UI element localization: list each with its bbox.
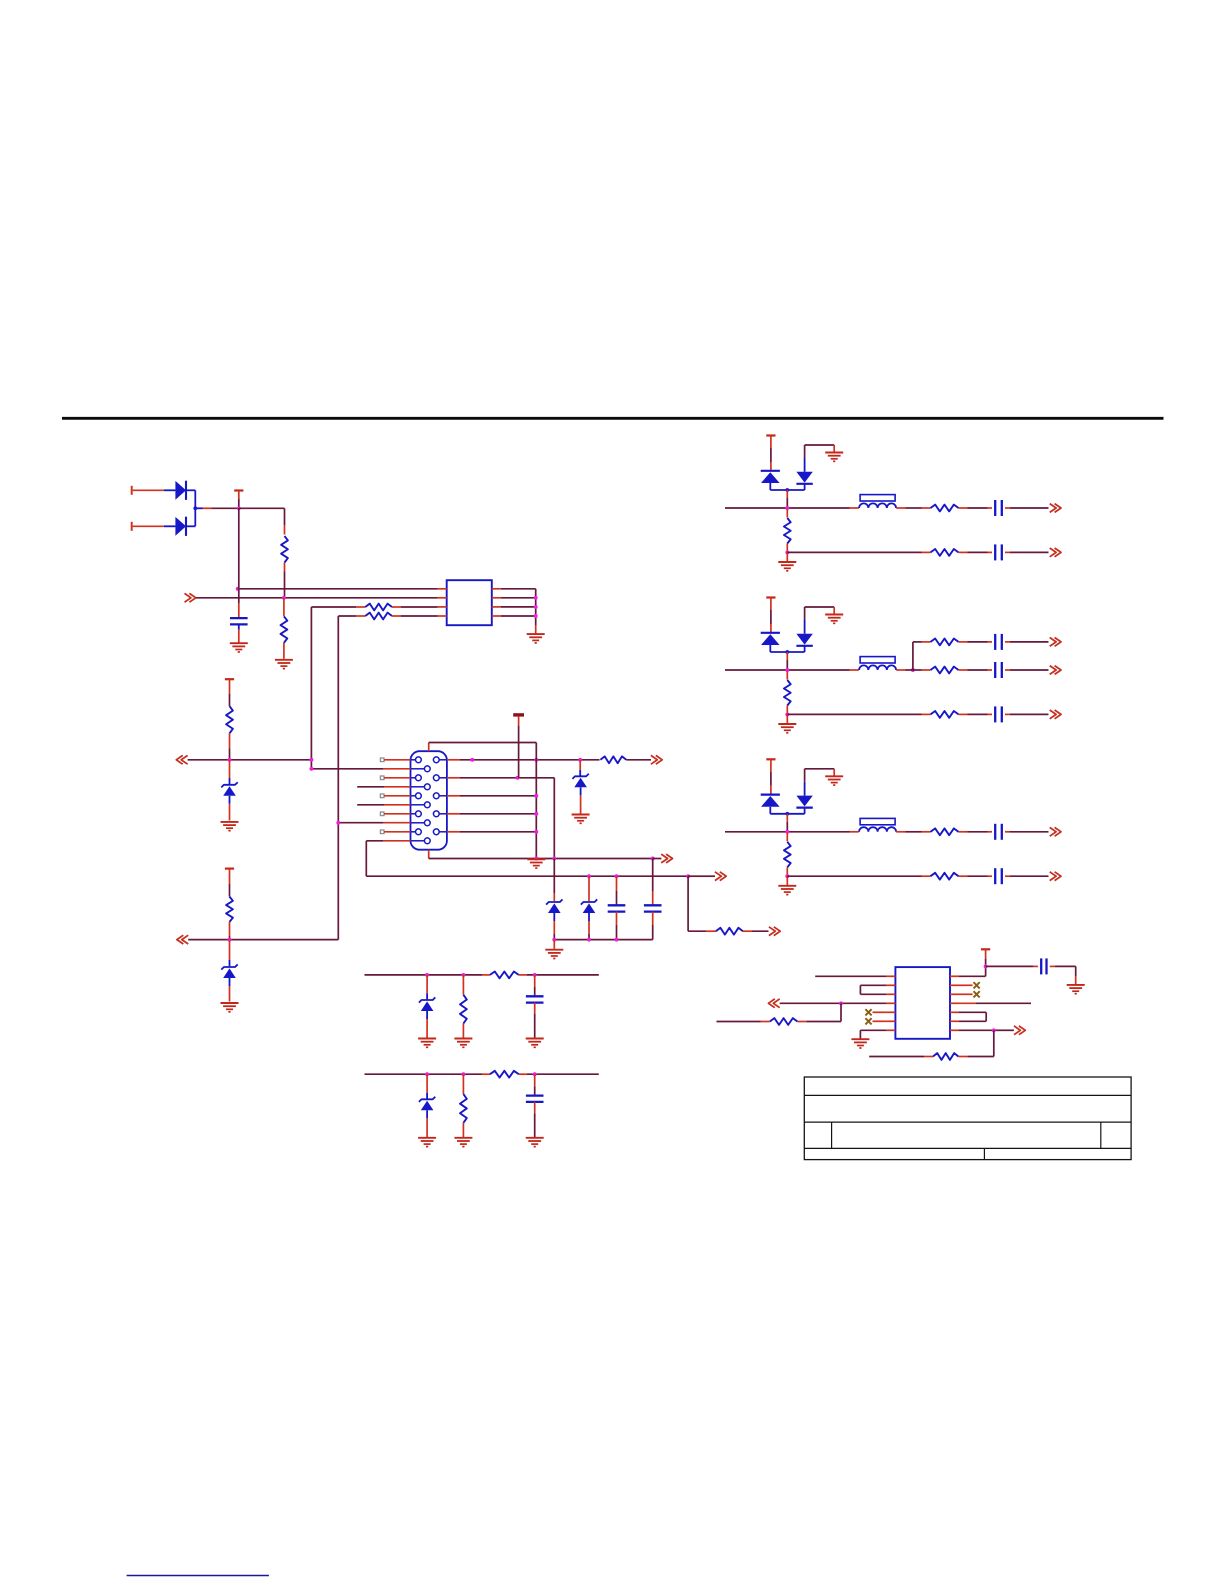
node junction xyxy=(236,587,240,591)
wire to ground jog xyxy=(805,607,835,615)
wire xyxy=(959,641,993,643)
wire xyxy=(906,507,931,509)
wire xyxy=(229,804,231,821)
ground xyxy=(221,822,239,831)
wire xyxy=(534,1074,536,1095)
wire xyxy=(786,552,788,561)
wire xyxy=(426,1074,428,1098)
wire xyxy=(392,615,438,617)
wire xyxy=(229,760,231,784)
wire xyxy=(873,1020,887,1022)
wire xyxy=(959,831,993,833)
pin square J1-9 xyxy=(380,830,384,834)
wire row8 drop to stack2 xyxy=(337,823,339,940)
ground xyxy=(825,776,843,785)
power VCC tap xyxy=(234,491,243,509)
pin square J1-3 xyxy=(380,776,384,780)
power VCC tap xyxy=(981,949,990,966)
off-page connector (input) xyxy=(177,935,188,944)
off-page connector (output) xyxy=(1050,548,1061,557)
resistor R21 xyxy=(460,1094,467,1123)
U2 pin 1 stub xyxy=(886,975,895,977)
footer underline xyxy=(127,1575,269,1577)
off-page connector (output) xyxy=(1050,827,1061,836)
resistor R10 xyxy=(931,505,959,512)
node junction xyxy=(785,712,789,716)
ground xyxy=(221,1003,239,1012)
wire xyxy=(426,1118,428,1137)
node junction xyxy=(785,874,789,878)
wire J1 row4 stub xyxy=(357,786,410,788)
off-page connector (output) xyxy=(661,854,672,863)
wire xyxy=(1005,551,1049,553)
ground xyxy=(851,1039,869,1048)
pin 5 stub xyxy=(492,615,501,617)
ground xyxy=(230,643,248,652)
wire J1 row6 stub xyxy=(357,804,410,806)
wire xyxy=(959,551,993,553)
wire xyxy=(959,993,973,995)
wire U1 outputs to ground rail xyxy=(501,589,536,634)
node junction xyxy=(534,614,538,618)
resistor R2 xyxy=(281,616,288,643)
wire pin stub xyxy=(384,813,411,815)
title block frame xyxy=(804,1077,1131,1160)
wire pin stub xyxy=(384,759,411,761)
U2 pin 5 stub xyxy=(886,1011,895,1013)
node junction xyxy=(534,794,538,798)
node junction xyxy=(309,758,313,762)
node junction xyxy=(587,874,591,878)
wire xyxy=(580,795,582,814)
resistor R17 xyxy=(931,828,959,835)
ground xyxy=(825,453,843,462)
capacitor C8 xyxy=(995,706,1002,722)
diode D12 (to GND) xyxy=(796,607,812,652)
node junction xyxy=(534,812,538,816)
resistor R15 xyxy=(931,711,959,718)
ground xyxy=(526,1138,544,1147)
power VCC tap block y=508.0 xyxy=(766,436,775,471)
ground xyxy=(454,1138,472,1147)
wire diode pair common xyxy=(770,812,804,832)
wire J1 row8 xyxy=(338,822,410,824)
node junction xyxy=(534,758,538,762)
wire vertical xyxy=(238,508,240,589)
wire xyxy=(392,606,438,608)
terminal P1 xyxy=(132,486,164,495)
capacitor C11 xyxy=(526,996,544,1002)
wire xyxy=(896,831,905,833)
power VCC tap xyxy=(225,869,234,897)
node junction xyxy=(785,550,789,554)
U2 pin 12 stub xyxy=(950,993,959,995)
wire xyxy=(1005,831,1049,833)
wire branch up xyxy=(906,642,922,670)
wire xyxy=(873,1011,887,1013)
wire xyxy=(164,525,176,527)
node junction xyxy=(533,973,537,977)
U2 pin 9 stub xyxy=(950,1020,959,1022)
node junction xyxy=(785,506,789,510)
wire Z5 drop xyxy=(588,876,590,901)
wire xyxy=(906,831,931,833)
off-page connector (output) xyxy=(1014,1026,1025,1035)
IC U2 xyxy=(895,967,950,1039)
ground xyxy=(527,859,545,868)
wire xyxy=(553,940,555,949)
node junction xyxy=(552,938,556,942)
wire resistor drop xyxy=(786,833,788,842)
node junction xyxy=(839,1001,843,1005)
wire to ground jog xyxy=(805,445,835,453)
zener diode Z3 xyxy=(572,774,588,796)
wire row3 to U1 xyxy=(311,606,365,608)
wire U2 pin2-pin3 loop xyxy=(860,985,886,994)
diode D14 (to GND) xyxy=(796,769,812,814)
wire main line xyxy=(725,507,859,509)
resistor R5 xyxy=(226,706,233,733)
node junction xyxy=(309,767,313,771)
resistor R17 xyxy=(770,1018,798,1025)
pin 1 stub xyxy=(438,588,447,590)
capacitor C12 xyxy=(526,1096,544,1102)
off-page connector (output) xyxy=(651,755,662,764)
wire xyxy=(787,551,930,553)
wire xyxy=(869,1056,933,1058)
U2 pin 13 stub xyxy=(950,984,959,986)
wire J1 row5 net xyxy=(447,795,536,797)
resistor R20 xyxy=(490,972,519,979)
U2 pin 3 stub xyxy=(886,993,895,995)
wire xyxy=(786,867,788,876)
diode D1 xyxy=(175,481,186,500)
wire xyxy=(652,912,654,940)
wire xyxy=(229,733,231,760)
capacitor C10 (decoupling) xyxy=(1041,958,1046,974)
wire ground bus xyxy=(366,875,688,877)
no-connect U2 pin13 xyxy=(974,982,980,988)
ground xyxy=(454,1039,472,1048)
wire xyxy=(238,589,240,617)
node junction xyxy=(615,874,619,878)
wire bus to U1 pin1 xyxy=(238,588,438,590)
wire J1 pin1 net xyxy=(447,759,600,761)
wire decoupling xyxy=(986,965,1038,967)
ground xyxy=(275,660,293,669)
wire to ground jog xyxy=(805,769,835,777)
node junction xyxy=(461,973,465,977)
wire xyxy=(959,875,993,877)
wire xyxy=(186,525,195,527)
node junction xyxy=(552,857,556,861)
diode D13 (to VCC) xyxy=(761,795,780,814)
wire pin stub xyxy=(384,831,411,833)
node junction xyxy=(534,605,538,609)
wire xyxy=(188,759,312,761)
wire xyxy=(284,508,286,534)
wire feedback resistor line xyxy=(797,1003,841,1021)
capacitor C9 xyxy=(995,824,1002,840)
capacitor C5 xyxy=(995,544,1002,560)
resistor R19 xyxy=(460,995,467,1024)
wire xyxy=(164,489,176,491)
node junction xyxy=(461,1072,465,1076)
wire xyxy=(896,669,905,671)
pin 6 stub xyxy=(492,606,501,608)
ground xyxy=(778,724,796,733)
wire J1 row7 net xyxy=(447,813,536,815)
no-connect U2 pin5 xyxy=(865,1009,871,1015)
wire resistor drop xyxy=(786,671,788,680)
node junction xyxy=(615,938,619,942)
node junction xyxy=(785,830,789,834)
diode D2 xyxy=(175,517,186,536)
U2 pin 14 stub xyxy=(950,975,959,977)
off-page connector (input) xyxy=(768,999,779,1008)
wire filter bus xyxy=(365,974,599,976)
node junction xyxy=(686,874,690,878)
wire xyxy=(703,875,715,877)
wire xyxy=(283,643,285,659)
node junction xyxy=(533,1072,537,1076)
wire xyxy=(688,876,716,931)
wire U1 row3 drop xyxy=(310,607,312,760)
wire xyxy=(462,1024,464,1038)
off-page connector (input) xyxy=(185,593,196,602)
capacitor C6 xyxy=(995,634,1002,650)
node junction xyxy=(516,776,520,780)
wire diode common xyxy=(193,490,238,526)
wire xyxy=(913,669,931,671)
capacitor C1 xyxy=(230,618,248,624)
wire C3 drop xyxy=(652,859,654,905)
node junction xyxy=(282,596,286,600)
wire xyxy=(896,507,905,509)
wire xyxy=(786,706,788,715)
ground xyxy=(526,1039,544,1048)
connector J1 (VGA DB15) xyxy=(411,751,447,850)
wire xyxy=(1005,641,1049,643)
wire xyxy=(229,940,231,967)
U2 pin 6 stub xyxy=(886,1020,895,1022)
wire xyxy=(426,1019,428,1038)
zener diode Z6 xyxy=(419,997,435,1019)
node junction xyxy=(425,973,429,977)
wire resistor drop xyxy=(786,509,788,518)
ground xyxy=(778,562,796,571)
ground xyxy=(572,815,590,824)
node junction xyxy=(228,758,232,762)
ground xyxy=(545,950,563,959)
pin 7 stub xyxy=(492,597,501,599)
off-page connector (output) xyxy=(1050,638,1061,647)
U2 pin 8 stub xyxy=(950,1029,959,1031)
wire xyxy=(426,975,428,999)
node junction xyxy=(651,857,655,861)
resistor R6 xyxy=(226,897,233,922)
wire xyxy=(616,912,618,940)
wire xyxy=(462,1074,464,1094)
wire U2 pin11 xyxy=(959,1002,1031,1004)
wire xyxy=(626,759,651,761)
ground xyxy=(418,1138,436,1147)
node junction xyxy=(336,821,340,825)
wire U2 pin1 xyxy=(815,975,886,977)
zener diode Z2 xyxy=(221,964,237,986)
capacitor C4 xyxy=(995,500,1002,516)
wire xyxy=(743,930,769,932)
pin 12 stub bottom xyxy=(428,850,430,859)
resistor R14 xyxy=(931,667,959,674)
node junction xyxy=(470,758,474,762)
node junction xyxy=(534,596,538,600)
node junction xyxy=(534,830,538,834)
terminal P2 xyxy=(132,522,164,531)
wire xyxy=(787,713,930,715)
node junction xyxy=(785,668,789,672)
wire bus to U1 pin2 xyxy=(196,597,438,599)
wire Z4 drop xyxy=(553,859,555,902)
off-page connector (output) xyxy=(1050,666,1061,675)
wire xyxy=(1050,966,1076,984)
wire xyxy=(284,563,286,598)
wire xyxy=(534,975,536,996)
node junction xyxy=(228,938,232,942)
node junction xyxy=(578,758,582,762)
wire U2 pin7 to ground xyxy=(860,1030,886,1038)
no-connect U2 pin12 xyxy=(974,991,980,997)
wire xyxy=(688,875,703,877)
wire xyxy=(462,1123,464,1137)
off-page connector (output) xyxy=(1050,504,1061,513)
resistor R7 xyxy=(600,756,626,763)
power VCC tap xyxy=(225,679,234,706)
wire diode pair common xyxy=(770,650,804,670)
wire xyxy=(534,1102,536,1137)
wire xyxy=(534,1003,536,1038)
zener diode Z1 xyxy=(221,782,237,804)
page top rule xyxy=(62,417,1164,420)
pin 3 stub xyxy=(438,606,447,608)
power bar V1 top xyxy=(513,713,524,778)
diode D11 (to VCC) xyxy=(761,633,780,652)
node junction xyxy=(911,668,915,672)
wire sense resistor xyxy=(958,1030,993,1056)
wire xyxy=(1005,507,1049,509)
node A junction xyxy=(237,506,241,510)
wire xyxy=(588,921,590,940)
inductor L (ferrite) xyxy=(859,657,896,670)
U2 pin 4 stub xyxy=(886,1002,895,1004)
wire xyxy=(922,641,931,643)
wire J1 row9 net xyxy=(447,831,536,833)
wire xyxy=(786,544,788,553)
power VCC tap block y=831.8 xyxy=(766,759,775,794)
wire xyxy=(283,598,285,616)
diode D9 (to VCC) xyxy=(761,471,780,490)
pin 8 stub xyxy=(492,588,501,590)
pin square J1-7 xyxy=(380,812,384,816)
wire xyxy=(238,624,240,642)
resistor R18 xyxy=(933,1053,958,1060)
ground xyxy=(418,1039,436,1048)
wire J1 row2 xyxy=(311,760,410,769)
resistor R16 xyxy=(784,842,791,868)
wire xyxy=(462,975,464,995)
U2 pin 2 stub xyxy=(886,984,895,986)
off-page connector (output) xyxy=(715,872,726,881)
pin 11 stub top xyxy=(428,743,430,752)
off-page connector (output) xyxy=(769,927,780,936)
wire pin stub xyxy=(384,795,411,797)
inductor L (ferrite) xyxy=(859,818,896,831)
wire U2 pin10-pin9 loop xyxy=(959,1012,986,1021)
off-page connector (input) xyxy=(176,755,187,764)
diode D10 (to GND) xyxy=(796,445,812,490)
resistor R12 xyxy=(784,680,791,706)
node junction xyxy=(534,857,538,861)
wire J1 row10 xyxy=(366,841,410,876)
capacitor C7 xyxy=(995,662,1002,678)
node junction xyxy=(425,1072,429,1076)
capacitor C10 xyxy=(995,868,1002,884)
no-connect U2 pin6 xyxy=(865,1018,871,1024)
resistor R3 xyxy=(365,604,392,611)
wire U2 pin8 out xyxy=(959,1029,1009,1031)
wire xyxy=(787,875,930,877)
wire xyxy=(188,939,338,941)
wire V3 drop xyxy=(553,778,555,859)
wire U2 pin4 xyxy=(780,1002,887,1004)
wire xyxy=(959,984,973,986)
node junction xyxy=(992,1028,996,1032)
resistor R18 xyxy=(931,873,959,880)
wire xyxy=(786,714,788,723)
resistor R13 xyxy=(931,639,959,646)
node junction xyxy=(587,938,591,942)
ground xyxy=(778,886,796,895)
wire xyxy=(229,986,231,1002)
wire sync line xyxy=(429,858,652,860)
pin square J1-5 xyxy=(380,794,384,798)
wire xyxy=(553,921,555,940)
wire xyxy=(959,669,993,671)
wire zener drop xyxy=(579,760,581,776)
inductor L (ferrite) xyxy=(859,495,896,508)
wire diode pair common xyxy=(770,488,804,508)
U2 pin 11 stub xyxy=(950,1002,959,1004)
capacitor C3 xyxy=(644,905,662,911)
node junction xyxy=(984,964,988,968)
wire xyxy=(717,1021,770,1023)
wire C2 drop xyxy=(616,876,618,904)
wire main line xyxy=(725,831,859,833)
zener diode Z7 xyxy=(419,1097,435,1119)
wire xyxy=(959,713,993,715)
wire xyxy=(186,489,195,491)
ground xyxy=(1067,985,1085,994)
pin square J1-1 xyxy=(380,758,384,762)
wire xyxy=(959,507,993,509)
power VCC tap block y=670.0 xyxy=(766,598,775,633)
resistor R11 xyxy=(931,549,959,556)
off-page connector (output) xyxy=(1050,872,1061,881)
wire xyxy=(1005,669,1049,671)
wire xyxy=(229,922,231,940)
wire xyxy=(1009,1029,1014,1031)
wire main line xyxy=(725,669,859,671)
